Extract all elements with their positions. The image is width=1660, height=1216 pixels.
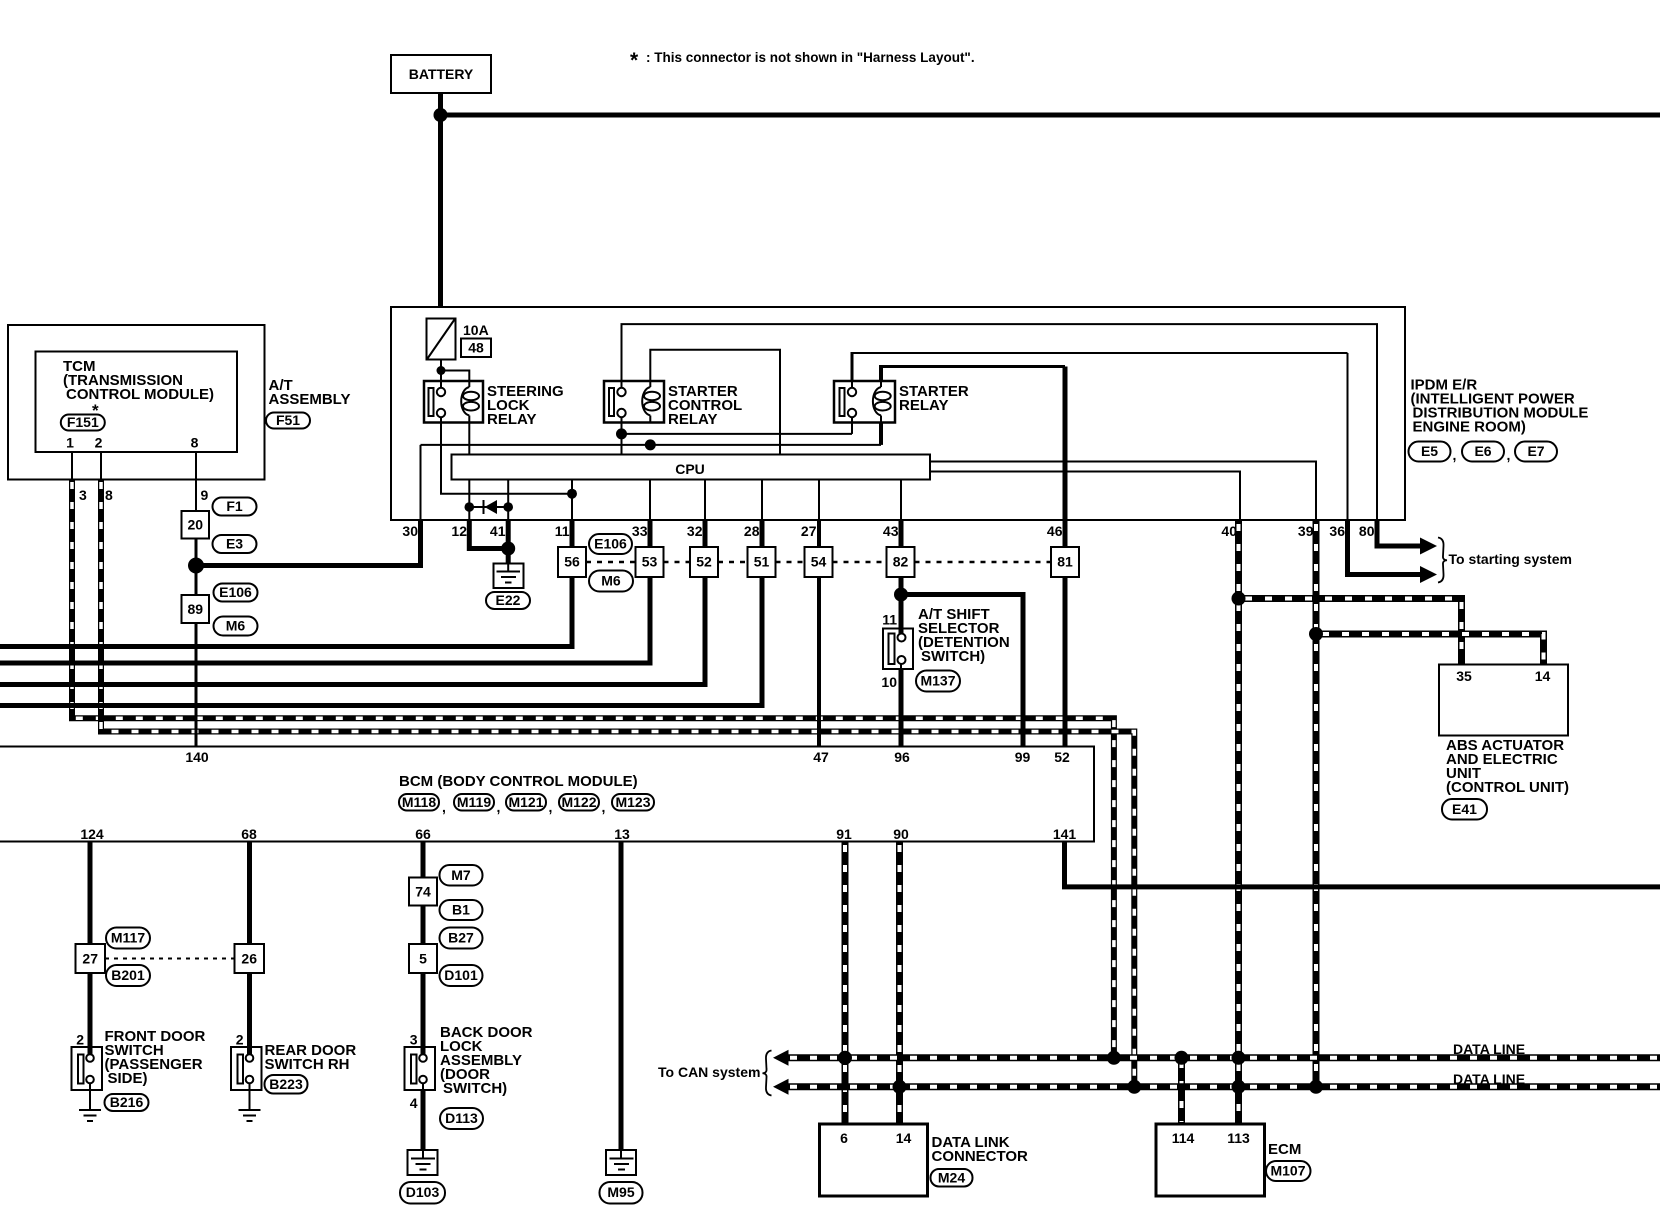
svg-text:114: 114 [1172, 1130, 1195, 1146]
connector square 20 [182, 511, 210, 539]
back door lock switch plunger bar [411, 1055, 417, 1084]
connector oval E41 [1442, 799, 1487, 820]
starter control relay body [604, 381, 664, 423]
svg-text:9: 9 [201, 487, 209, 503]
svg-text:52: 52 [1054, 749, 1070, 765]
wire starter control relay contact bottom to CPU with branch to starter relay [621, 417, 623, 455]
connector oval D113 [440, 1108, 483, 1129]
connector square 74 [409, 878, 437, 906]
wire CAN data line 1 [785, 1054, 1660, 1061]
wire IPDM pin 46 drop to connector 81 [1063, 367, 1068, 548]
wire steering lock relay coil bottom to CPU [468, 417, 470, 455]
ground symbol M95 boxed [606, 1150, 636, 1175]
starter control relay coil [642, 381, 660, 423]
junction relay coil common [645, 439, 656, 450]
connector oval B27 [440, 928, 483, 949]
junction CAN line 2 at IPDM 39 wire [1309, 1080, 1323, 1094]
wire ground junction to ground E22 [506, 549, 511, 565]
svg-text:E7: E7 [1527, 443, 1544, 459]
svg-text:6: 6 [840, 1130, 848, 1146]
svg-text:56: 56 [564, 554, 580, 570]
connector square 5 [409, 944, 437, 973]
junction starter control relay contact [616, 428, 627, 439]
svg-text:To starting system: To starting system [1449, 551, 1572, 567]
starter control relay contact bar [609, 388, 614, 416]
wire shielded BCM pin 91 to data link connector pin 6 [842, 842, 849, 1125]
wire AT shift selector pin 10 to BCM pin 96 [899, 664, 904, 747]
wire connector 82 to AT shift selector pin 11 [899, 577, 904, 634]
wire CPU pin 12 through diode level [468, 480, 470, 521]
svg-text:M119: M119 [457, 794, 491, 810]
fuse 48 10A [427, 319, 456, 360]
wire connector 5 to back door lock switch pin 3 [421, 973, 426, 1055]
svg-text:E3: E3 [226, 536, 243, 552]
junction CAN line 1 at BCM 91 [838, 1051, 852, 1065]
junction CPU node pin 11 [567, 489, 577, 499]
wire connector 52 left run [0, 577, 705, 685]
svg-text:113: 113 [1227, 1130, 1250, 1146]
svg-text:1: 1 [66, 435, 74, 451]
connector oval M118 [399, 794, 439, 811]
arrowhead CAN line 2 to CAN system [773, 1079, 789, 1095]
wire battery bus to right edge [441, 113, 1660, 118]
wire branch junction 82 to BCM pin 99 [901, 595, 1023, 747]
ground symbol rear door switch [239, 1110, 261, 1121]
wire shielded IPDM pin 39 down to CAN data line 2 [1313, 520, 1320, 1087]
dotted link connector 56-53-52-51-54-82-81 [586, 561, 1051, 564]
starter relay contact bar [840, 388, 845, 416]
ECM box M107 [1156, 1124, 1265, 1196]
connector oval E106 mid [589, 534, 632, 554]
svg-text:28: 28 [744, 523, 760, 539]
wire IPDM pin 43 stub to connector 82 [899, 519, 904, 547]
wire front door switch to ground [89, 1081, 91, 1110]
svg-text:B216: B216 [110, 1094, 144, 1110]
svg-text:E106: E106 [219, 584, 252, 600]
svg-text:D113: D113 [445, 1110, 478, 1126]
svg-text:8: 8 [105, 487, 113, 503]
svg-text:13: 13 [614, 826, 630, 842]
svg-text:54: 54 [811, 554, 827, 570]
connector oval M24 [931, 1169, 973, 1187]
svg-text:47: 47 [813, 749, 829, 765]
wire rear door switch to ground [249, 1081, 251, 1110]
svg-text:33: 33 [632, 523, 648, 539]
wire battery feed stem [438, 93, 443, 307]
wire IPDM pin 36 stub to starting system arrow [1348, 519, 1421, 575]
wire starter relay contact top to pin 36 [851, 352, 1348, 392]
svg-text:40: 40 [1221, 523, 1237, 539]
connector oval M6 mid [589, 571, 633, 592]
svg-text:ECM: ECM [1268, 1141, 1301, 1158]
junction CAN line 1 at ECM 114 [1175, 1051, 1189, 1065]
svg-text:M24: M24 [938, 1170, 965, 1186]
wire CPU pin 27 drop [818, 480, 820, 521]
svg-text:M121: M121 [508, 794, 543, 810]
svg-text:B201: B201 [111, 967, 145, 983]
svg-text:11: 11 [555, 523, 570, 539]
svg-text:M117: M117 [111, 930, 145, 946]
svg-text:39: 39 [1298, 523, 1314, 539]
junction fuse to relay [437, 366, 446, 375]
connector square 82 [887, 547, 915, 577]
junction diode cathode [465, 502, 475, 512]
wire pin 36 interior riser [1347, 353, 1349, 520]
A/T assembly outer box F51 [8, 325, 265, 480]
wire TCM pin 1 stub [71, 452, 73, 480]
svg-text:: This connector is not shown: : This connector is not shown in "Harnes… [646, 50, 975, 65]
wire connector 89 to BCM pin 140 [195, 623, 198, 747]
wire connector 53 left run [0, 577, 650, 663]
svg-text:*: * [92, 401, 99, 420]
connector oval M137 [916, 671, 960, 692]
BCM body control module box [0, 747, 1094, 842]
svg-text:3: 3 [410, 1032, 418, 1048]
brace to starting system [1438, 538, 1447, 583]
starter control relay contact pins [617, 388, 625, 417]
svg-text:,: , [1507, 447, 1511, 463]
wire CPU pin 41 branch through diode level [507, 480, 509, 521]
steering lock relay U1 body [424, 381, 483, 423]
svg-text:27: 27 [801, 523, 817, 539]
svg-text:48: 48 [468, 340, 484, 356]
front door switch contacts [86, 1054, 94, 1083]
svg-text:53: 53 [642, 554, 658, 570]
connector oval F1 [213, 498, 257, 516]
junction CAN line 2 at ECM 113 [1232, 1080, 1246, 1094]
front door switch plunger bar [78, 1055, 84, 1084]
wire connector 27 to front door switch [88, 973, 93, 1055]
svg-text:66: 66 [415, 826, 431, 842]
svg-text:80: 80 [1359, 523, 1375, 539]
junction connector 82 branch [894, 588, 908, 602]
wire CPU pin 28 drop [761, 480, 763, 521]
svg-text:DATA LINE: DATA LINE [1453, 1041, 1525, 1057]
front door switch B216 body [72, 1047, 103, 1090]
connector oval E5 [1409, 442, 1451, 462]
svg-text:35: 35 [1456, 668, 1472, 684]
data link connector box M24 [820, 1124, 928, 1196]
svg-text:ABS ACTUATORAND ELECTRICUNIT(C: ABS ACTUATORAND ELECTRICUNIT(CONTROL UNI… [1446, 737, 1569, 796]
wire IPDM pin 30 stub to TCM junction [196, 519, 421, 566]
svg-text:43: 43 [883, 523, 899, 539]
wire TCM pin 8 (9) down to connector 20 [195, 452, 197, 511]
connector oval M117 [106, 928, 150, 949]
svg-text:51: 51 [754, 554, 770, 570]
svg-text:To CAN system: To CAN system [658, 1064, 760, 1080]
svg-text:M122: M122 [561, 794, 596, 810]
wire BCM pin 124 to connector 27 [88, 842, 93, 945]
connector oval E106 left [214, 584, 258, 602]
rear door switch plunger bar [238, 1055, 244, 1084]
junction TCM line to pin 30 [188, 558, 204, 574]
svg-text:46: 46 [1047, 523, 1063, 539]
svg-text:M6: M6 [226, 618, 246, 634]
svg-text:10A: 10A [463, 322, 489, 338]
connector square 81 [1051, 547, 1079, 577]
svg-text:F1: F1 [226, 498, 243, 514]
wire relay coil common line pin 30 [421, 444, 882, 446]
back door lock switch contacts [419, 1054, 427, 1083]
wire BCM pin 68 to connector 26 [247, 842, 252, 945]
wire connector 20 to junction [195, 539, 198, 596]
junction CAN line 2 at TCM wire [1127, 1080, 1141, 1094]
wire TCM pin 2 stub [100, 452, 102, 480]
connector square 54 [805, 547, 833, 577]
svg-text:E22: E22 [496, 592, 521, 608]
wire junction branch to steering lock relay coil [441, 371, 469, 382]
connector square 27 [76, 944, 106, 973]
connector square 26 [235, 944, 265, 973]
connector square 52 [690, 547, 718, 577]
A/T shift selector plunger bar [889, 634, 895, 665]
A/T shift selector detention switch M137 body [883, 629, 913, 670]
connector oval F151 [61, 414, 105, 431]
connector oval E3 [213, 535, 257, 553]
connector oval E7 [1515, 442, 1557, 462]
svg-text:D103: D103 [406, 1184, 440, 1200]
wire shielded IPDM pin 40 down to ECM pin 113 [1235, 520, 1242, 1124]
junction diode anode [503, 502, 513, 512]
wire starter control relay coil top to CPU [650, 350, 780, 455]
svg-text:E5: E5 [1421, 443, 1438, 459]
connector square 53 [636, 547, 664, 577]
svg-text:D101: D101 [444, 967, 478, 983]
wire shielded branch to ABS pin 14 [1316, 634, 1544, 665]
junction pin 40 to ABS branch [1232, 592, 1246, 606]
wire IPDM pin 32 stub to connector 52 [703, 519, 708, 547]
wire shielded ECM pin 114 up to CAN data line 1 [1178, 1058, 1185, 1124]
connector oval E6 [1462, 442, 1504, 462]
wire steering lock relay contact bottom to CPU node [441, 417, 572, 494]
connector oval M107 [1266, 1161, 1311, 1181]
svg-text:5: 5 [419, 951, 427, 967]
svg-text:90: 90 [893, 826, 909, 842]
junction CAN line 2 at BCM 90 [893, 1080, 907, 1094]
svg-text:91: 91 [836, 826, 852, 842]
connector oval F51 [266, 412, 310, 429]
wire back door lock switch pin 4 to ground D103 [421, 1083, 426, 1151]
steering lock relay coil [461, 381, 479, 423]
svg-text:36: 36 [1329, 523, 1345, 539]
wire shielded BCM pin 90 to data link connector pin 14 [896, 842, 903, 1125]
arrowhead to starting system lower [1420, 566, 1437, 583]
wire BCM pin 141 to right edge [1065, 842, 1660, 887]
svg-text:30: 30 [402, 523, 418, 539]
svg-text:E6: E6 [1474, 443, 1491, 459]
wire connector 54 to BCM pin 47 [817, 577, 821, 747]
svg-text:11: 11 [882, 612, 897, 628]
wire connector 81 to BCM pin 52 [1063, 577, 1068, 747]
arrowhead CAN line 1 to CAN system [773, 1050, 789, 1066]
connector oval M123 [612, 794, 654, 811]
connector oval B1 [440, 900, 483, 920]
wire shielded branch to ABS pin 35 [1239, 599, 1462, 665]
junction ground E22 [501, 542, 515, 556]
connector oval E22 [486, 592, 530, 609]
rear door switch contacts [246, 1054, 254, 1083]
wire CPU pin 32 drop [704, 480, 706, 521]
ground symbol front door switch [79, 1110, 101, 1121]
wire BCM pin 13 to ground M95 [619, 842, 624, 1152]
wire IPDM pin 12 stub to ground junction [469, 519, 508, 549]
svg-text:27: 27 [82, 951, 98, 967]
note harness layout [630, 49, 975, 72]
svg-text:B1: B1 [452, 902, 470, 918]
connector square 51 [748, 547, 776, 577]
junction CAN line 1 at TCM wire [1107, 1051, 1121, 1065]
wire CPU tab to pin 40 [930, 472, 1240, 521]
connector oval B223 [265, 1075, 308, 1094]
wire IPDM pin 41 stub to ground junction [506, 519, 511, 549]
connector oval M6 left [214, 617, 258, 636]
wire connector 74 to connector 5 [421, 906, 426, 945]
svg-text:68: 68 [241, 826, 257, 842]
fuse number box 48 [461, 339, 491, 358]
wire IPDM pin 27 stub to connector 54 [817, 519, 821, 547]
svg-text:32: 32 [687, 523, 703, 539]
svg-text:M7: M7 [451, 867, 471, 883]
svg-text:BATTERY: BATTERY [409, 66, 474, 82]
starter relay body [834, 381, 895, 423]
svg-text:81: 81 [1057, 554, 1073, 570]
ground symbol D103 boxed [408, 1150, 438, 1175]
svg-text:4: 4 [410, 1095, 418, 1111]
wire IPDM pin 80 stub to starting system arrow [1377, 519, 1420, 546]
wire IPDM pin 33 stub to connector 53 [648, 519, 653, 547]
connector oval M7 [440, 865, 483, 886]
svg-text:E106: E106 [594, 536, 627, 552]
svg-text:E41: E41 [1452, 801, 1477, 817]
svg-text:26: 26 [241, 951, 257, 967]
junction battery bus [434, 108, 448, 122]
svg-text:3: 3 [79, 487, 87, 503]
wire shielded TCM pin 2 (connector pin 8) to CAN data line 2 [101, 479, 1134, 1087]
starter relay coil [873, 381, 891, 423]
brace to CAN system [763, 1051, 772, 1096]
svg-text:124: 124 [80, 826, 104, 842]
wire shielded TCM pin 1 (connector pin 3) to CAN data line 1 [72, 479, 1114, 1058]
svg-text:REAR DOORSWITCH RH: REAR DOORSWITCH RH [265, 1042, 357, 1073]
svg-text:2: 2 [76, 1032, 84, 1048]
connector square 89 [182, 595, 210, 623]
svg-text:F51: F51 [276, 412, 300, 428]
svg-text:,: , [1453, 447, 1457, 463]
wire relay contact link line [622, 433, 853, 435]
svg-text:140: 140 [185, 749, 209, 765]
wire IPDM pin 30 interior riser [420, 445, 422, 520]
connector oval D103 [400, 1182, 445, 1204]
battery box [391, 55, 491, 93]
connector oval M121 [506, 794, 546, 811]
steering lock relay contact pins [437, 388, 445, 417]
svg-text:74: 74 [415, 884, 431, 900]
dotted link connector 27-26 [105, 958, 235, 960]
svg-text:41: 41 [490, 523, 506, 539]
diode D1 [469, 500, 508, 514]
CPU box [452, 455, 931, 480]
svg-text:14: 14 [1535, 668, 1551, 684]
svg-text:14: 14 [896, 1130, 912, 1146]
connector square 56 [558, 547, 586, 577]
wire connector 56 left run [0, 577, 572, 647]
svg-text:10: 10 [881, 674, 897, 690]
svg-text:99: 99 [1015, 749, 1031, 765]
wire IPDM pin 11 stub to connector 56 [570, 519, 575, 547]
svg-text:20: 20 [188, 517, 204, 533]
rear door switch B223 body [231, 1047, 262, 1090]
svg-text:2: 2 [236, 1032, 244, 1048]
connector oval B216 [105, 1094, 149, 1111]
starter relay contact pins [848, 388, 856, 417]
svg-text:BCM (BODY CONTROL MODULE): BCM (BODY CONTROL MODULE) [399, 773, 638, 790]
TCM inner box F151 [36, 352, 238, 453]
wire starter control relay contact top to pin 80 [622, 324, 1378, 520]
svg-text:2: 2 [95, 435, 103, 451]
back door lock switch D113 body [405, 1047, 436, 1090]
wire starter relay coil top to pin 46 [879, 365, 1065, 381]
svg-text:DATA LINE: DATA LINE [1453, 1071, 1525, 1087]
svg-text:M118: M118 [402, 794, 436, 810]
A/T shift selector contacts [898, 634, 906, 665]
wire fuse 48 to relay junction [440, 360, 442, 382]
ground symbol E22 boxed [494, 564, 524, 589]
svg-text:12: 12 [451, 523, 467, 539]
arrowhead to starting system upper [1420, 538, 1437, 555]
wire connector 51 left run [0, 577, 762, 706]
svg-text:B27: B27 [448, 930, 474, 946]
junction pin 39 to ABS branch [1309, 627, 1323, 641]
svg-text:B223: B223 [269, 1076, 303, 1092]
wire CPU tab to pin 39 [930, 462, 1316, 521]
steering lock relay contact bar [429, 388, 434, 416]
wire CPU pin 33 drop [649, 480, 651, 521]
connector oval D101 [440, 965, 483, 986]
svg-text:141: 141 [1053, 826, 1077, 842]
ABS actuator and electric unit box E41 [1439, 665, 1568, 736]
svg-text:96: 96 [894, 749, 910, 765]
connector oval B201 [106, 965, 150, 986]
svg-text:M6: M6 [601, 573, 621, 589]
svg-text:82: 82 [893, 554, 909, 570]
svg-text:*: * [630, 49, 639, 72]
connector oval M122 [559, 794, 599, 811]
svg-text:M107: M107 [1270, 1163, 1305, 1179]
svg-text:52: 52 [696, 554, 712, 570]
svg-text:M123: M123 [615, 794, 650, 810]
wire CPU pin 43 drop [900, 480, 902, 521]
svg-text:89: 89 [188, 601, 204, 617]
wire CPU pin 11 drop [571, 480, 573, 521]
svg-text:8: 8 [191, 435, 199, 451]
junction CAN line 1 at IPDM 40 wire [1232, 1051, 1246, 1065]
wire starter relay coil bottom stub [879, 423, 883, 445]
connector oval M95 [600, 1182, 643, 1204]
wire BCM pin 66 to connector 74 [421, 842, 426, 878]
svg-text:M95: M95 [607, 1184, 634, 1200]
IPDM E/R outer box [391, 307, 1405, 520]
wire starter relay contact bottom stub [851, 417, 853, 434]
wire connector 26 to rear door switch [247, 973, 252, 1055]
svg-text:CPU: CPU [675, 461, 705, 477]
svg-text:M137: M137 [920, 673, 955, 689]
connector oval M119 [454, 794, 494, 811]
wire CAN data line 2 [785, 1083, 1660, 1090]
wire IPDM pin 28 stub to connector 51 [760, 519, 765, 547]
